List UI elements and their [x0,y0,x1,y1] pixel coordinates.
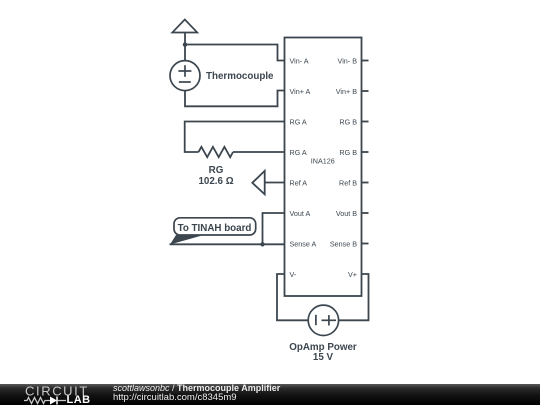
svg-text:LAB: LAB [67,394,91,405]
label flag To TINAH board [170,218,256,245]
svg-text:RG B: RG B [339,117,357,126]
wire [265,182,285,184]
footer bar [0,384,540,405]
wire RG loop top [185,122,285,153]
footer url line [113,392,237,403]
op-amp U1 INA126 body [285,38,362,297]
node junction [183,42,187,46]
node junction [260,242,264,246]
pin stub Sense B [362,243,369,245]
wire V+ [338,274,369,320]
voltage source V2 OpAmp Power [308,305,338,335]
svg-text:INA126: INA126 [311,156,335,165]
svg-text:RG A: RG A [290,148,307,157]
wire [185,45,285,61]
CircuitLab logo [0,384,110,405]
footer credit line [113,383,280,393]
svg-text:Ref B: Ref B [339,178,357,187]
svg-text:15 V: 15 V [313,352,334,363]
svg-text:Vout A: Vout A [290,209,311,218]
wire Sense A [170,243,285,245]
wire [233,151,285,153]
svg-text:Vout B: Vout B [336,209,357,218]
svg-text:Ref A: Ref A [290,178,308,187]
wire [184,33,186,62]
svg-text:Vin+ B: Vin+ B [336,87,357,96]
wire V- [277,274,308,320]
svg-text:Vin- B: Vin- B [338,56,358,65]
resistor R1 RG [199,147,234,157]
pin stub RG B bottom [362,151,369,153]
pin stub Vin+ B [362,90,369,92]
svg-text:To TINAH board: To TINAH board [178,223,252,234]
svg-text:Thermocouple: Thermocouple [206,71,274,82]
svg-text:V-: V- [290,270,297,279]
svg-text:RG B: RG B [339,148,357,157]
wire Vout A [263,213,285,244]
pin stub Vin- B [362,60,369,62]
node flag Ref A [252,171,264,194]
svg-text:V+: V+ [348,270,357,279]
pin stub RG B top [362,121,369,123]
svg-text:Vin+ A: Vin+ A [290,87,311,96]
svg-text:Vin- A: Vin- A [290,56,309,65]
svg-text:Sense A: Sense A [290,239,317,248]
svg-text:102.6 Ω: 102.6 Ω [198,176,233,187]
svg-text:RG: RG [209,165,224,176]
wire [185,90,285,106]
voltage source V1 Thermocouple [170,61,200,91]
pin stub Ref B [362,182,369,184]
pin stub Vout B [362,212,369,214]
svg-text:RG A: RG A [290,117,307,126]
antenna flag [172,20,197,33]
svg-text:Sense B: Sense B [330,239,357,248]
